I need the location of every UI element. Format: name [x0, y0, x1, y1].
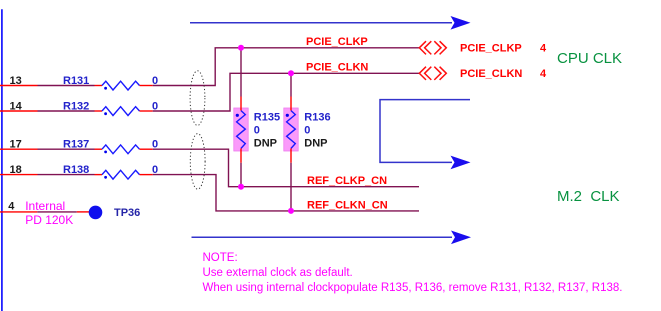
svg-text:DNP: DNP: [254, 138, 277, 150]
wire TP row maroon: [37, 211, 77, 213]
test point TP36: [89, 206, 103, 220]
wire row13 left red: [0, 85, 38, 87]
resistor R132: [95, 107, 153, 116]
svg-text:4: 4: [540, 68, 547, 80]
junction node PCIE_CLKP / R135: [238, 45, 244, 51]
wire row13 maroon: [38, 85, 95, 87]
svg-text:17: 17: [10, 139, 22, 151]
diff-pair ellipse rows 13/14: [190, 71, 205, 126]
svg-text:R135: R135: [254, 112, 280, 124]
svg-text:PCIE_CLKN: PCIE_CLKN: [460, 68, 522, 80]
svg-text:R131: R131: [63, 75, 89, 87]
svg-text:PCIE_CLKP: PCIE_CLKP: [460, 43, 522, 55]
svg-text:REF_CLKP_CN: REF_CLKP_CN: [307, 175, 387, 187]
svg-text:REF_CLKN_CN: REF_CLKN_CN: [307, 199, 388, 211]
left vertical blue bus line: [1, 9, 3, 311]
wire TP row left red: [0, 211, 37, 213]
svg-text:R132: R132: [63, 101, 89, 113]
wire row14 to PCIE_CLKN: [153, 73, 419, 111]
junction node PCIE_CLKN / R136: [288, 70, 294, 76]
svg-text:18: 18: [10, 164, 22, 176]
svg-text:0: 0: [152, 75, 158, 87]
wire row18 to REF_CLKN_CN: [153, 175, 419, 211]
junction node REF_CLKP_CN / R135: [238, 184, 244, 190]
svg-text:Use external clock as default.: Use external clock as default.: [203, 267, 353, 279]
middle bracket with arrow: [380, 100, 471, 170]
svg-text:0: 0: [152, 101, 158, 113]
wire row18 maroon: [38, 174, 95, 176]
svg-text:R137: R137: [63, 139, 89, 151]
svg-text:PCIE_CLKP: PCIE_CLKP: [306, 36, 368, 48]
svg-text:Internal: Internal: [25, 199, 65, 213]
svg-text:NOTE:: NOTE:: [203, 252, 238, 264]
svg-text:When using internal clockpopul: When using internal clockpopulate R135, …: [203, 282, 623, 294]
svg-text:M.2 CLK: M.2 CLK: [557, 188, 620, 205]
svg-text:0: 0: [152, 164, 158, 176]
resistor R136 (vertical, DNP): [284, 73, 298, 211]
wire row17 to REF_CLKP_CN: [153, 149, 419, 187]
diff-pair ellipse rows 17/18: [190, 134, 205, 190]
wire row17 left red: [0, 148, 38, 150]
svg-text:0: 0: [254, 125, 260, 137]
wire row17 maroon: [38, 148, 95, 150]
off-page connector PCIE_CLKP: [419, 41, 446, 54]
svg-text:R136: R136: [304, 112, 330, 124]
off-page connector PCIE_CLKN: [419, 67, 446, 80]
wire row14 maroon: [38, 110, 95, 112]
top flow arrow: [190, 16, 471, 30]
bottom flow arrow: [192, 231, 472, 245]
wire row18 left red: [0, 174, 38, 176]
svg-text:4: 4: [540, 43, 547, 55]
resistor R138: [95, 170, 153, 179]
svg-text:0: 0: [152, 139, 158, 151]
svg-text:14: 14: [10, 101, 23, 113]
svg-text:4: 4: [8, 201, 15, 213]
svg-text:CPU CLK: CPU CLK: [557, 50, 622, 67]
wire row13 to PCIE_CLKP: [153, 48, 419, 86]
svg-text:DNP: DNP: [304, 138, 327, 150]
svg-text:0: 0: [304, 125, 310, 137]
svg-text:13: 13: [10, 75, 22, 87]
resistor R131: [95, 81, 153, 90]
resistor R137: [95, 145, 153, 154]
svg-text:PD 120K: PD 120K: [25, 213, 73, 227]
wire row14 left red: [0, 110, 38, 112]
svg-text:PCIE_CLKN: PCIE_CLKN: [306, 62, 368, 74]
resistor R135 (vertical, DNP): [234, 48, 248, 187]
junction node REF_CLKN_CN / R136: [288, 208, 294, 214]
svg-text:R138: R138: [63, 164, 89, 176]
svg-text:TP36: TP36: [114, 207, 140, 219]
wire TP row red to test point: [77, 211, 90, 213]
